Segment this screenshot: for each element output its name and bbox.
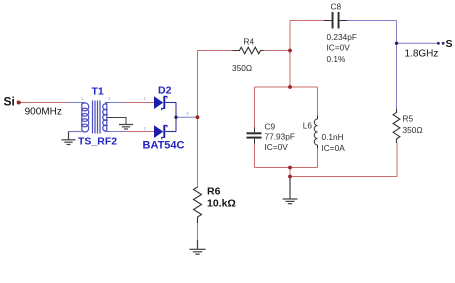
svg-text:L6: L6 xyxy=(303,121,313,131)
svg-text:R6: R6 xyxy=(207,186,221,198)
svg-text:TS_RF2: TS_RF2 xyxy=(78,136,117,148)
svg-text:2: 2 xyxy=(144,126,147,131)
svg-text:3: 3 xyxy=(186,111,189,116)
svg-text:T1: T1 xyxy=(92,86,104,98)
svg-text:BAT54C: BAT54C xyxy=(143,140,185,152)
svg-text:D2: D2 xyxy=(158,85,172,97)
svg-text:0.1%: 0.1% xyxy=(327,54,347,64)
svg-text:1: 1 xyxy=(144,96,147,101)
svg-text:1: 1 xyxy=(81,96,84,101)
svg-text:S: S xyxy=(446,38,453,50)
svg-text:350Ω: 350Ω xyxy=(232,63,252,73)
svg-text:77.93pF: 77.93pF xyxy=(265,132,295,142)
svg-text:C9: C9 xyxy=(265,122,276,132)
svg-text:10.kΩ: 10.kΩ xyxy=(207,197,236,209)
svg-text:C8: C8 xyxy=(331,2,342,12)
svg-text:0.1nH: 0.1nH xyxy=(322,132,344,142)
svg-text:3: 3 xyxy=(108,96,111,101)
svg-text:0.234pF: 0.234pF xyxy=(327,32,357,42)
svg-text:R4: R4 xyxy=(244,37,255,47)
svg-text:Si: Si xyxy=(4,95,15,109)
svg-text:IC=0A: IC=0A xyxy=(322,143,346,153)
svg-text:IC=0V: IC=0V xyxy=(265,142,289,152)
svg-text:900MHz: 900MHz xyxy=(25,107,62,118)
svg-text:350Ω: 350Ω xyxy=(403,125,423,135)
svg-text:1.8GHz: 1.8GHz xyxy=(405,49,439,60)
svg-text:R5: R5 xyxy=(403,114,414,124)
svg-text:IC=0V: IC=0V xyxy=(327,43,351,53)
